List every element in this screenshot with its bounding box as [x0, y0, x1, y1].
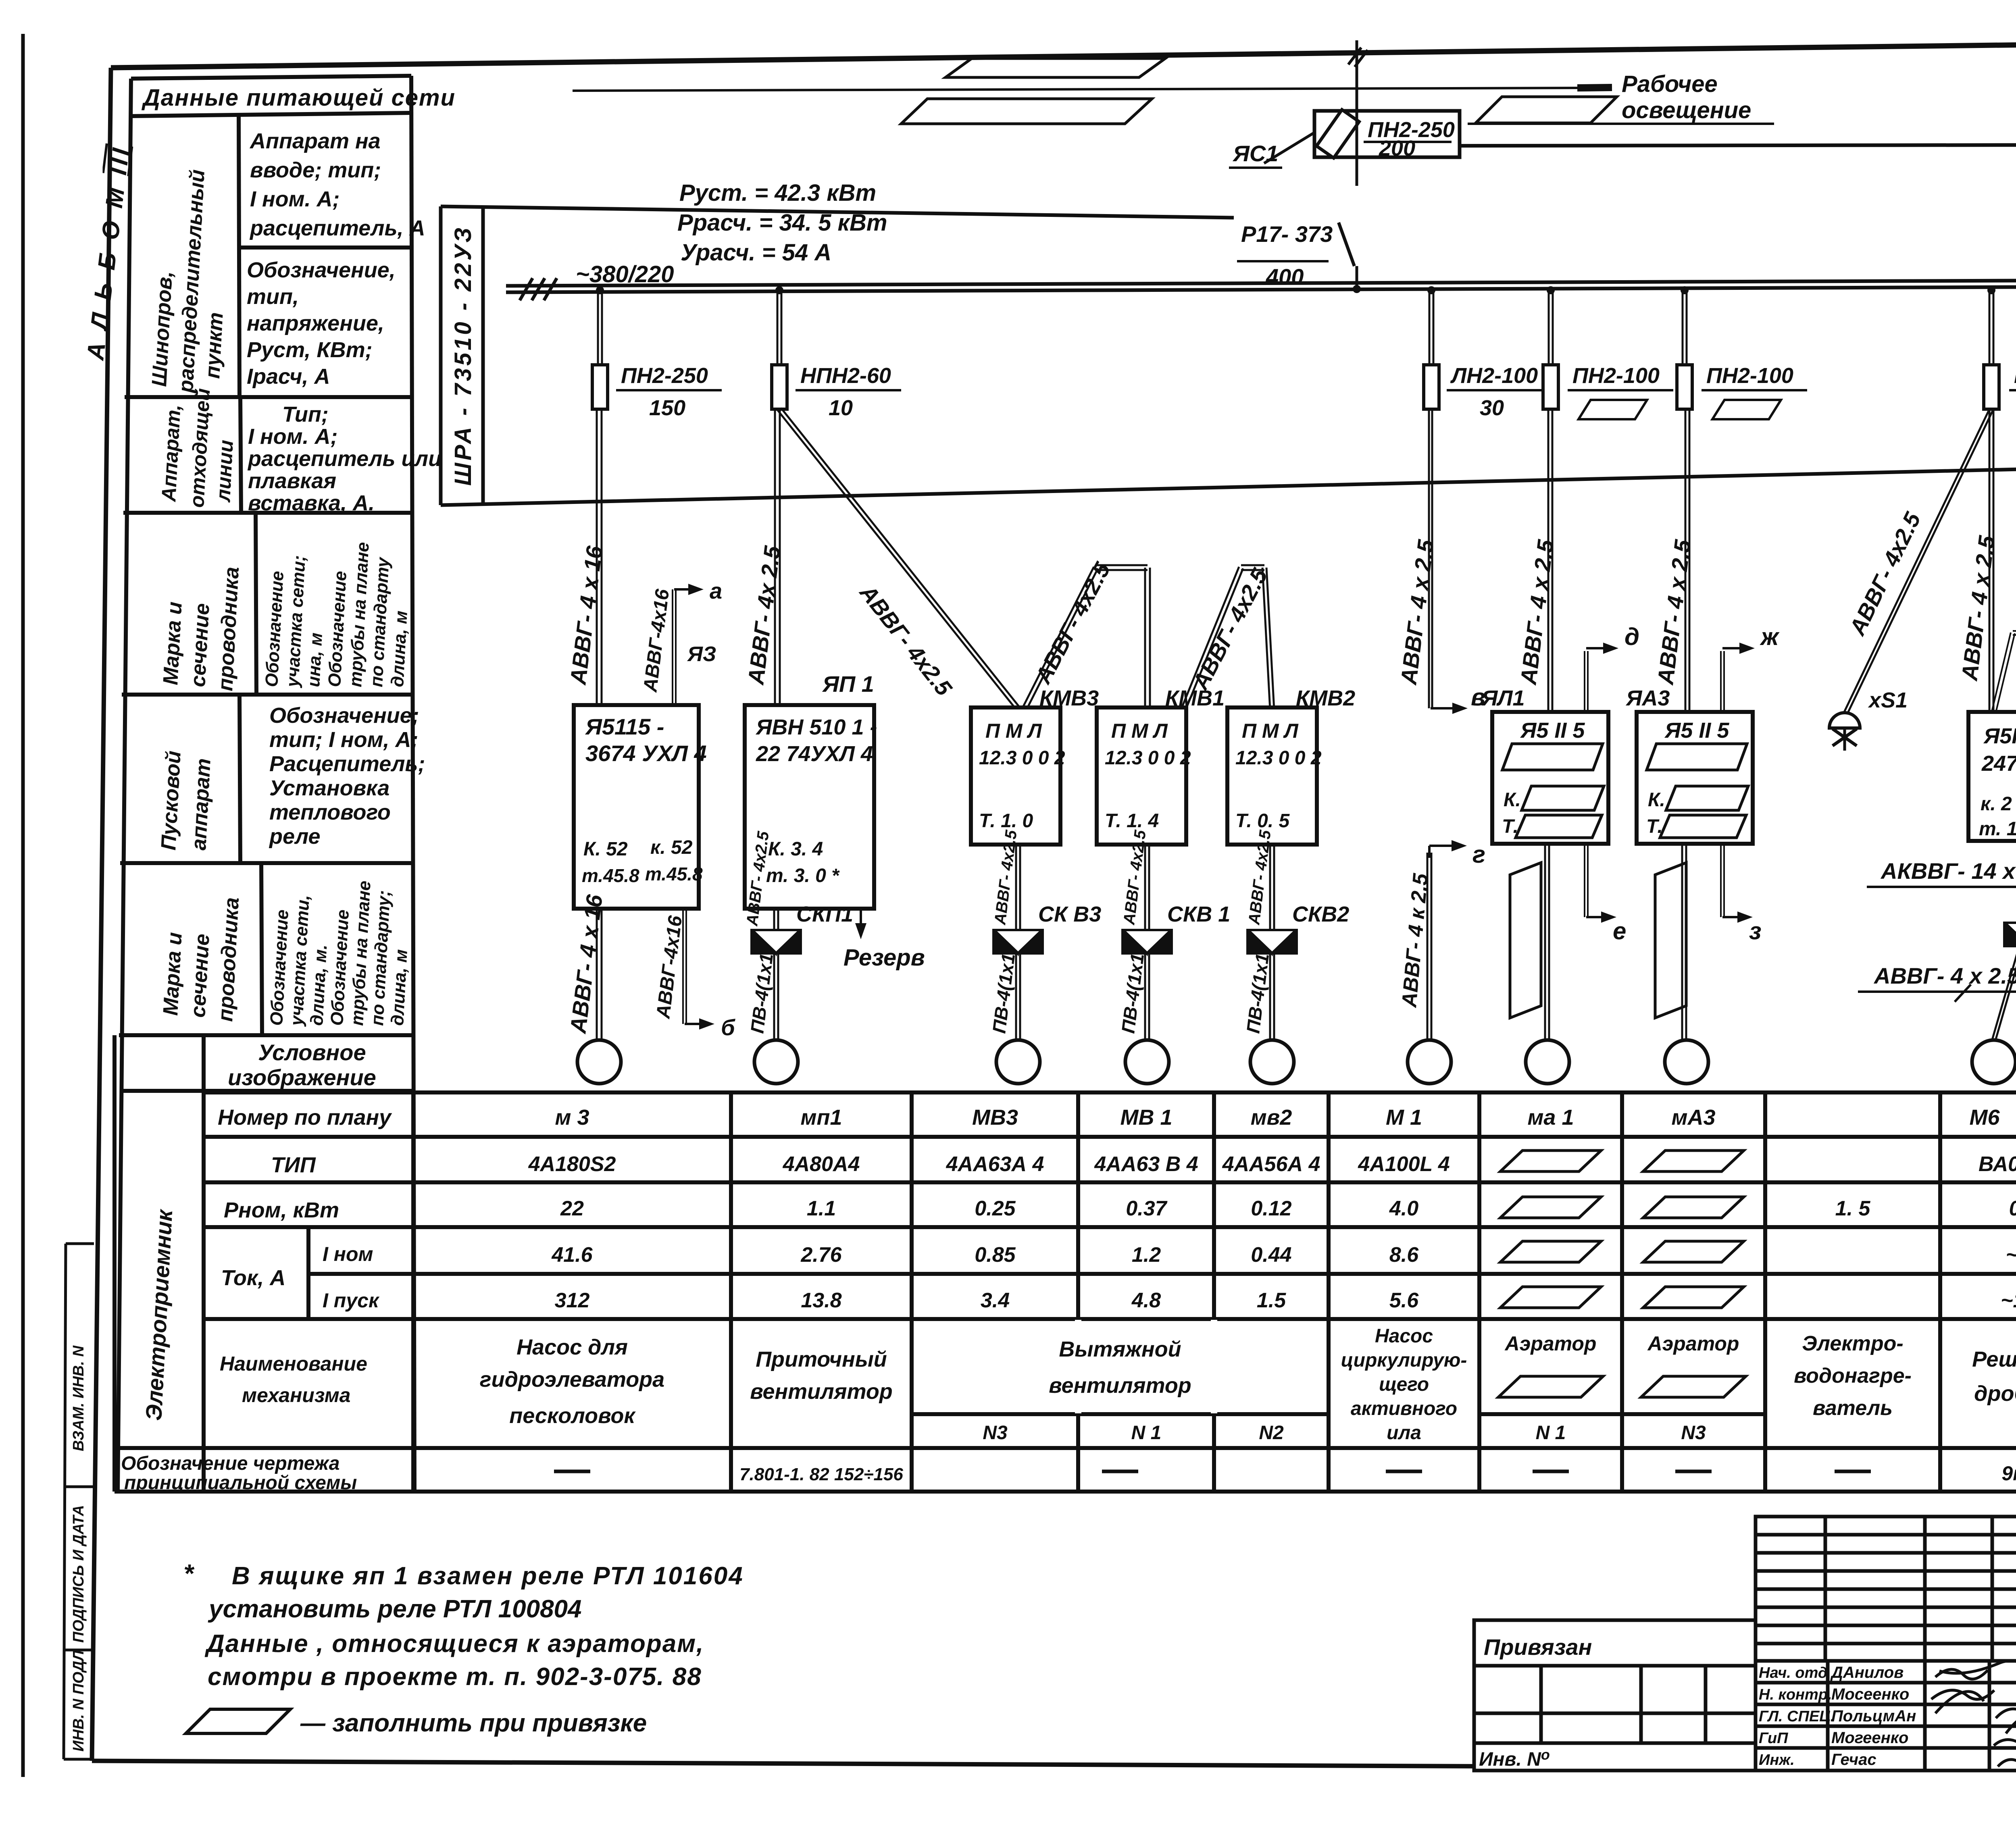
svg-text:НПН2-60: НПН2-60 [2014, 364, 2016, 388]
svg-text:е: е [1613, 918, 1626, 945]
svg-text:Iрасч, А: Iрасч, А [247, 364, 330, 389]
svg-text:~11.2: ~11.2 [2001, 1289, 2016, 1312]
svg-text:теплового: теплового [269, 800, 391, 824]
svg-text:Н. контр.: Н. контр. [1759, 1686, 1832, 1703]
svg-text:Инж.: Инж. [1759, 1752, 1795, 1769]
svg-text:т. 1. 8: т. 1. 8 [1979, 818, 2016, 840]
svg-text:СК В3: СК В3 [1038, 902, 1101, 926]
svg-text:Привязан: Привязан [1484, 1634, 1592, 1660]
svg-text:расцепитель, А: расцепитель, А [249, 216, 425, 240]
svg-text:установить реле РТЛ 1008: установить реле РТЛ 100804 [208, 1595, 582, 1623]
svg-text:К. 3. 4: К. 3. 4 [768, 838, 823, 860]
svg-text:Инв. No: Инв. No [1479, 1746, 1550, 1770]
svg-text:Обозначение;: Обозначение; [269, 703, 419, 728]
svg-text:М6: М6 [1969, 1105, 2000, 1130]
svg-text:Руст. = 42.3 кВт: Руст. = 42.3 кВт [679, 180, 876, 206]
svg-text:1. 5: 1. 5 [1835, 1197, 1871, 1220]
svg-text:Электро-: Электро- [1802, 1332, 1903, 1355]
svg-text:ГиП: ГиП [1759, 1730, 1788, 1747]
svg-text:1.5: 1.5 [1257, 1289, 1286, 1312]
svg-text:сечение: сечение [186, 933, 214, 1018]
svg-text:принципиальной схемы: принципиальной схемы [124, 1472, 357, 1494]
svg-text:Аэратор: Аэратор [1647, 1332, 1739, 1355]
svg-text:ПОДПИСЬ И ДАТА: ПОДПИСЬ И ДАТА [70, 1505, 87, 1643]
svg-text:вводе; тип;: вводе; тип; [250, 158, 381, 182]
svg-text:Аэратор: Аэратор [1504, 1332, 1597, 1355]
svg-text:Данные питающей сети: Данные питающей сети [141, 85, 456, 111]
svg-text:10: 10 [829, 396, 853, 420]
svg-text:АВВГ- 4 х 2.5: АВВГ- 4 х 2.5 [1873, 963, 2016, 988]
svg-text:Решетки-: Решетки- [1972, 1347, 2016, 1371]
svg-text:з: з [1749, 918, 1762, 945]
svg-text:12.3 0 0 2: 12.3 0 0 2 [1105, 747, 1191, 769]
svg-text:ила: ила [1387, 1422, 1421, 1444]
svg-text:13.8: 13.8 [801, 1289, 841, 1312]
svg-text:СКП1: СКП1 [796, 902, 853, 926]
svg-text:Номер по плану: Номер по плану [218, 1105, 392, 1130]
svg-text:4АА63 В 4: 4АА63 В 4 [1094, 1153, 1198, 1176]
svg-text:вентилятор: вентилятор [750, 1379, 893, 1404]
svg-text:МВ3: МВ3 [972, 1105, 1018, 1130]
svg-text:ж: ж [1760, 623, 1780, 650]
svg-text:ма 1: ма 1 [1527, 1105, 1574, 1130]
svg-text:тип,: тип, [247, 285, 299, 309]
svg-text:22 74УХЛ 4: 22 74УХЛ 4 [756, 742, 873, 766]
svg-text:к. 52: к. 52 [650, 837, 693, 858]
svg-text:МВ 1: МВ 1 [1120, 1105, 1172, 1130]
svg-text:реле: реле [269, 824, 321, 849]
svg-text:т.45.8: т.45.8 [582, 865, 639, 886]
svg-text:ПН2-100: ПН2-100 [1572, 364, 1660, 388]
svg-text:ШРА - 73510 - 22УЗ: ШРА - 73510 - 22УЗ [450, 225, 476, 486]
svg-text:8.6: 8.6 [1389, 1243, 1419, 1267]
svg-text:0.37: 0.37 [1126, 1197, 1167, 1220]
svg-text:Марка и: Марка и [159, 601, 187, 686]
svg-text:22: 22 [560, 1197, 584, 1220]
svg-text:I пуск: I пуск [323, 1289, 380, 1312]
svg-text:изображение: изображение [228, 1065, 376, 1090]
svg-text:щего: щего [1379, 1374, 1429, 1395]
svg-text:механизма: механизма [242, 1384, 350, 1406]
svg-text:вентилятор: вентилятор [1049, 1373, 1191, 1398]
svg-text:~380/220: ~380/220 [576, 261, 674, 287]
svg-text:ЯА3: ЯА3 [1625, 686, 1670, 710]
svg-text:N 1: N 1 [1131, 1422, 1162, 1444]
svg-text:4АА63А 4: 4АА63А 4 [946, 1153, 1044, 1176]
svg-text:П М Л: П М Л [1111, 720, 1168, 742]
svg-text:Обозначение,: Обозначение, [247, 258, 396, 282]
svg-text:400: 400 [1266, 264, 1304, 289]
svg-text:Аппарат на: Аппарат на [249, 129, 381, 153]
svg-text:— заполнить при привязке: — заполнить при привязке [300, 1709, 647, 1737]
svg-text:Я5 II 5: Я5 II 5 [1520, 718, 1585, 743]
svg-text:мА3: мА3 [1672, 1105, 1716, 1130]
svg-text:К.: К. [1648, 789, 1665, 811]
svg-text:В ящике яп 1 взамен реле: В ящике яп 1 взамен реле РТЛ 101604 [232, 1562, 744, 1590]
svg-text:N3: N3 [983, 1422, 1008, 1444]
svg-text:0.12: 0.12 [1251, 1197, 1291, 1220]
svg-text:дробилки: дробилки [1974, 1382, 2016, 1406]
svg-text:СКВ2: СКВ2 [1292, 902, 1349, 926]
svg-text:СКВ 1: СКВ 1 [1167, 902, 1230, 926]
svg-text:Т. 1. 4: Т. 1. 4 [1105, 810, 1159, 832]
svg-text:N3: N3 [1681, 1422, 1706, 1444]
svg-text:ПольцмАн: ПольцмАн [1831, 1707, 1916, 1725]
svg-text:ЯС1: ЯС1 [1232, 141, 1278, 166]
svg-text:П М Л: П М Л [1242, 720, 1299, 742]
svg-text:12.3 0 0 2: 12.3 0 0 2 [979, 747, 1065, 769]
svg-text:т.45.8: т.45.8 [645, 863, 703, 884]
svg-text:НПН2-60: НПН2-60 [800, 364, 891, 388]
svg-text:41.6: 41.6 [551, 1243, 593, 1267]
svg-text:линии: линии [212, 439, 237, 503]
svg-text:4АА56А 4: 4АА56А 4 [1222, 1153, 1320, 1176]
svg-text:200: 200 [1379, 136, 1415, 160]
svg-text:Марка и: Марка и [159, 932, 187, 1016]
svg-text:освещение: освещение [1622, 97, 1751, 123]
svg-text:Наименование: Наименование [220, 1352, 367, 1375]
svg-text:песколовок: песколовок [509, 1404, 636, 1428]
svg-text:сечение: сечение [186, 603, 214, 688]
svg-text:0.44: 0.44 [1251, 1243, 1291, 1267]
svg-text:мп1: мп1 [801, 1105, 842, 1130]
svg-text:150: 150 [649, 396, 685, 420]
svg-text:Ток, А: Ток, А [221, 1266, 285, 1290]
svg-text:Резерв: Резерв [843, 945, 925, 971]
svg-text:Мосеенко: Мосеенко [1831, 1685, 1909, 1703]
svg-text:т. 3. 0 *: т. 3. 0 * [766, 865, 840, 886]
svg-text:ПН2-100: ПН2-100 [1706, 364, 1793, 388]
svg-text:N2: N2 [1259, 1422, 1284, 1444]
svg-text:4А100L 4: 4А100L 4 [1358, 1153, 1450, 1176]
svg-text:ватель: ватель [1813, 1396, 1893, 1420]
svg-text:3.4: 3.4 [981, 1289, 1010, 1312]
svg-text:I ном: I ном [323, 1243, 373, 1265]
svg-text:к. 2: к. 2 [1981, 793, 2012, 815]
svg-text:д: д [1624, 623, 1639, 650]
svg-text:0. 8: 0. 8 [2009, 1197, 2016, 1220]
svg-text:гидроэлеватора: гидроэлеватора [480, 1367, 664, 1392]
svg-text:Вытяжной: Вытяжной [1059, 1337, 1181, 1361]
svg-text:АКВВГ- 14 х 2.5: АКВВГ- 14 х 2.5 [1880, 858, 2016, 884]
svg-text:пункт: пункт [201, 312, 228, 379]
svg-text:3674 УХЛ 4: 3674 УХЛ 4 [585, 741, 707, 766]
svg-text:м 3: м 3 [555, 1105, 589, 1130]
svg-text:9м- 4: 9м- 4 [2001, 1462, 2016, 1485]
svg-text:П М Л: П М Л [985, 720, 1042, 742]
svg-text:4А180S2: 4А180S2 [528, 1153, 616, 1176]
svg-text:~1.6: ~1.6 [2006, 1243, 2016, 1267]
svg-text:Я5 II 5: Я5 II 5 [1664, 718, 1729, 743]
svg-text:12.3 0 0 2: 12.3 0 0 2 [1235, 747, 1322, 769]
svg-text:Т. 0. 5: Т. 0. 5 [1235, 810, 1290, 832]
svg-text:К. 52: К. 52 [583, 838, 628, 860]
svg-text:312: 312 [555, 1289, 590, 1312]
svg-text:30: 30 [1480, 396, 1504, 420]
svg-text:ПН2-250: ПН2-250 [621, 364, 708, 388]
svg-text:Расцепитель;: Расцепитель; [269, 752, 425, 776]
svg-text:Я5115 -: Я5115 - [585, 714, 664, 739]
svg-text:*: * [183, 1559, 195, 1588]
svg-text:2.76: 2.76 [800, 1243, 842, 1267]
svg-text:ЛН2-100: ЛН2-100 [1450, 364, 1538, 388]
svg-text:ВЗАМ. ИНВ. N: ВЗАМ. ИНВ. N [70, 1345, 87, 1451]
svg-text:7.801-1. 82 152÷156: 7.801-1. 82 152÷156 [739, 1465, 903, 1484]
svg-text:тип; I ном, А;: тип; I ном, А; [269, 728, 419, 752]
svg-text:активного: активного [1351, 1398, 1457, 1419]
svg-text:Могеенко: Могеенко [1831, 1729, 1908, 1747]
svg-text:напряжение,: напряжение, [247, 311, 384, 335]
svg-text:КМВ2: КМВ2 [1296, 686, 1355, 710]
svg-text:б: б [721, 1015, 735, 1040]
svg-text:Руст, КВт;: Руст, КВт; [247, 338, 373, 362]
svg-text:Насос для: Насос для [516, 1335, 628, 1359]
svg-text:ГЛ. СПЕЦ.: ГЛ. СПЕЦ. [1759, 1708, 1835, 1725]
svg-text:хS1: хS1 [1868, 688, 1908, 712]
svg-text:смотри в проекте т. п.: смотри в проекте т. п. 902-3-075. 88 [208, 1663, 702, 1691]
svg-text:Т. 1. 0: Т. 1. 0 [979, 810, 1033, 832]
svg-text:0.25: 0.25 [975, 1197, 1016, 1220]
svg-text:а: а [710, 578, 722, 603]
svg-text:5.6: 5.6 [1389, 1289, 1419, 1312]
svg-text:г: г [1472, 841, 1485, 868]
svg-text:ина, м: ина, м [304, 632, 326, 687]
svg-text:ИНВ. N ПОДЛ: ИНВ. N ПОДЛ [70, 1650, 87, 1752]
svg-text:ЯП 1: ЯП 1 [822, 671, 874, 697]
svg-text:Нач. отд: Нач. отд [1759, 1664, 1827, 1681]
svg-text:Приточный: Приточный [756, 1347, 887, 1371]
svg-text:Гечас: Гечас [1831, 1751, 1876, 1769]
svg-text:Тип;: Тип; [282, 402, 329, 427]
svg-text:Рабочее: Рабочее [1622, 71, 1718, 97]
svg-text:ЯЛ1: ЯЛ1 [1481, 686, 1525, 710]
svg-text:N 1: N 1 [1536, 1422, 1566, 1444]
svg-text:Данные , относящиеся к а: Данные , относящиеся к аэраторам, [204, 1630, 704, 1658]
svg-text:2474УХЛ 4: 2474УХЛ 4 [1981, 751, 2016, 776]
svg-text:I ном. А;: I ном. А; [250, 187, 340, 211]
svg-text:Установка: Установка [269, 776, 389, 800]
svg-text:длина, м: длина, м [387, 949, 411, 1026]
svg-text:аппарат: аппарат [187, 758, 215, 851]
svg-text:ЯВН 510 1 -: ЯВН 510 1 - [755, 715, 877, 739]
svg-text:Рном, кВт: Рном, кВт [224, 1198, 339, 1222]
svg-text:длина, м: длина, м [387, 610, 411, 688]
svg-text:расцепитель или: расцепитель или [247, 447, 442, 471]
svg-text:водонагре-: водонагре- [1794, 1364, 1912, 1388]
svg-text:1.2: 1.2 [1132, 1243, 1161, 1267]
svg-text:1.1: 1.1 [807, 1197, 836, 1220]
svg-text:К.: К. [1504, 789, 1521, 811]
svg-text:ТИП: ТИП [271, 1153, 316, 1177]
svg-text:циркулирую-: циркулирую- [1341, 1350, 1467, 1371]
svg-text:4.0: 4.0 [1389, 1197, 1418, 1220]
svg-text:Обозначение чертежа: Обозначение чертежа [121, 1453, 339, 1474]
svg-text:4А80А4: 4А80А4 [783, 1153, 860, 1176]
svg-text:Я5II5 -: Я5II5 - [1983, 724, 2016, 748]
svg-text:вставка, А.: вставка, А. [248, 491, 375, 515]
svg-text:4.8: 4.8 [1131, 1289, 1161, 1312]
svg-text:ВА0-12- 4: ВА0-12- 4 [1979, 1153, 2016, 1176]
svg-text:Ррасч. = 34. 5 кВт: Ррасч. = 34. 5 кВт [677, 210, 887, 236]
svg-text:плавкая: плавкая [248, 469, 336, 493]
svg-text:Насос: Насос [1375, 1325, 1433, 1347]
svg-text:ДАнилов: ДАнилов [1830, 1664, 1904, 1681]
svg-text:I ном. А;: I ном. А; [248, 424, 338, 449]
svg-text:Р17- 373: Р17- 373 [1241, 221, 1333, 247]
svg-text:0.85: 0.85 [975, 1243, 1016, 1267]
svg-text:М 1: М 1 [1386, 1105, 1422, 1130]
svg-text:КМВ1: КМВ1 [1165, 686, 1225, 710]
svg-text:мв2: мв2 [1251, 1105, 1292, 1130]
svg-text:КМВ3: КМВ3 [1039, 686, 1099, 710]
svg-text:Условное: Условное [258, 1040, 366, 1065]
svg-text:Урасч. = 54 А: Урасч. = 54 А [681, 239, 831, 266]
svg-text:ЯЗ: ЯЗ [687, 643, 716, 666]
